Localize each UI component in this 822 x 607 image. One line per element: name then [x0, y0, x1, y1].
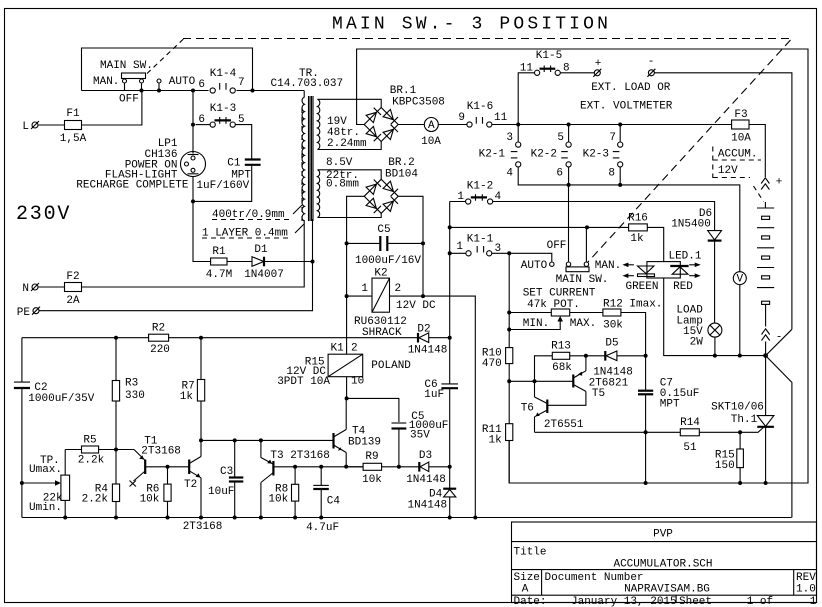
svg-text:9: 9: [458, 112, 465, 124]
svg-text:7: 7: [238, 77, 245, 89]
neon lamp LP1: [76, 91, 205, 202]
svg-text:10: 10: [351, 376, 364, 388]
trimmer TP 22k: [22, 450, 70, 518]
svg-text:1N4148: 1N4148: [407, 500, 447, 512]
wire top bus y=90.5: [82, 90, 209, 92]
svg-text:1: 1: [810, 596, 817, 607]
svg-text:230V: 230V: [16, 203, 71, 226]
svg-text:K2: K2: [374, 268, 387, 280]
svg-text:K2-3: K2-3: [583, 149, 609, 161]
svg-text:10uF: 10uF: [208, 486, 234, 498]
svg-text:1,5A: 1,5A: [60, 133, 87, 145]
svg-text:BR.2: BR.2: [388, 157, 414, 169]
transformer secondary 2 (8.5V): [317, 170, 319, 218]
relay contact K1-2 (closed): [457, 181, 501, 205]
svg-text:0.8mm: 0.8mm: [326, 179, 359, 191]
MAIN SW. selector box: [82, 48, 253, 91]
transistor T6 2T6551: [521, 381, 584, 432]
diode D2: [408, 324, 448, 357]
svg-text:R16: R16: [628, 213, 648, 225]
svg-text:1uF/160V: 1uF/160V: [196, 180, 249, 192]
fuse F2: [38, 271, 82, 307]
svg-text:35V: 35V: [410, 430, 430, 442]
svg-text:Date:: Date:: [514, 596, 547, 607]
svg-text:3: 3: [506, 132, 513, 144]
wire R2 to D2: [169, 337, 418, 339]
mains L terminal: [22, 121, 39, 133]
svg-text:T6: T6: [521, 403, 534, 415]
main switch AUTO contact: [157, 79, 161, 83]
svg-text:220: 220: [150, 344, 170, 356]
main switch MAN contact bar: [122, 73, 146, 79]
svg-text:ACCUM.: ACCUM.: [718, 149, 758, 161]
battery cells: [757, 208, 774, 327]
wire T2 collector rail to T4 base: [201, 439, 334, 441]
junction dot lamp bottom: [191, 199, 195, 203]
ext + terminal: [593, 58, 601, 77]
fuse F3: [731, 109, 751, 145]
svg-text:OFF: OFF: [119, 94, 139, 106]
wire K1-2 left to column: [450, 201, 466, 203]
title block: [512, 522, 817, 607]
svg-text:6: 6: [556, 168, 563, 180]
svg-text:1000uF/35V: 1000uF/35V: [28, 393, 94, 405]
svg-text:SKT10/06: SKT10/06: [711, 402, 764, 414]
svg-text:GREEN: GREEN: [625, 281, 658, 293]
wire MAN contact up to R16 wire: [585, 227, 587, 261]
svg-text:7: 7: [609, 132, 616, 144]
transformer adjustment dashed line: [301, 108, 303, 222]
wire LED bottom to battery junction: [664, 278, 766, 356]
capacitor C3 10uF: [208, 440, 243, 517]
svg-text:-: -: [776, 332, 783, 344]
left column K net (K1-2/K1-1/D2/C6/D4): [449, 202, 451, 384]
wire T5 base rail: [509, 380, 573, 382]
svg-text:10A: 10A: [421, 136, 441, 148]
wire K1-5 to + terminal: [560, 72, 594, 74]
svg-text:2.24mm: 2.24mm: [327, 138, 367, 150]
relay contact K1-3 (closed): [198, 103, 244, 127]
svg-text:5: 5: [557, 132, 564, 144]
transistor T2 2T3168: [183, 440, 223, 533]
junction dot D1/PE: [311, 260, 315, 264]
wire K1-1 left: [450, 252, 466, 254]
svg-text:2A: 2A: [66, 295, 80, 307]
dot K1-3 tap on lamp column: [191, 123, 195, 127]
relay contact K2-2: [531, 125, 572, 180]
svg-text:2T6551: 2T6551: [544, 419, 584, 431]
svg-text:D5: D5: [605, 338, 618, 350]
svg-text:Umax.: Umax.: [29, 464, 62, 476]
svg-text:1N4148: 1N4148: [408, 345, 448, 357]
big loop wire BR.1 to bottom right: [357, 49, 808, 483]
resistor R8: [268, 467, 298, 518]
transformer secondary 1 (19V): [317, 99, 319, 149]
svg-text:1uF: 1uF: [424, 389, 444, 401]
svg-text:150: 150: [715, 460, 735, 472]
svg-text:C1: C1: [227, 158, 241, 170]
svg-text:F3: F3: [734, 109, 747, 121]
svg-text:SET CURRENT: SET CURRENT: [523, 288, 596, 300]
resistor R10 470: [482, 348, 513, 424]
relay contact K1-5 (closed): [520, 50, 570, 75]
junction dots on top bus: [140, 89, 144, 93]
wire ext - terminal down right side: [654, 73, 792, 330]
svg-text:LED.1: LED.1: [668, 251, 701, 263]
svg-text:D1: D1: [254, 244, 268, 256]
svg-text:T3 2T3168: T3 2T3168: [270, 450, 329, 462]
svg-text:4.7M: 4.7M: [206, 269, 232, 281]
thyristor Th.1 SKT10/06: [711, 356, 774, 483]
svg-text:D3: D3: [419, 450, 432, 462]
thyristor gate wire: [740, 428, 763, 433]
transistor T5 2T6821: [548, 356, 629, 406]
mechanical linkage dashed diagonal to main switch: [147, 39, 184, 74]
svg-text:D2: D2: [417, 324, 430, 336]
resistor R11 1k: [482, 424, 513, 483]
svg-text:T2: T2: [184, 479, 197, 491]
svg-text:Title: Title: [514, 547, 547, 559]
wire F1 to main switch: [82, 91, 142, 126]
bottom ground rail: [22, 517, 792, 519]
svg-text:10k: 10k: [362, 474, 382, 486]
svg-text:Umin.: Umin.: [29, 502, 62, 514]
svg-text:+: +: [595, 58, 602, 70]
transformer core: [309, 96, 314, 221]
svg-text:R9: R9: [365, 451, 378, 463]
top rail of regulator (R2 rail): [22, 337, 149, 339]
mains N terminal: [22, 283, 39, 295]
svg-text:C5: C5: [377, 224, 390, 236]
mechanical linkage dashed rail: [183, 38, 791, 40]
wire R1 to D1: [227, 261, 252, 263]
svg-text:K1-3: K1-3: [210, 103, 236, 115]
capacitor C6 1uF: [424, 379, 458, 488]
wire main switch contacts to bus: [124, 83, 126, 90]
wire T3 base rail: [274, 466, 363, 468]
svg-text:BD139: BD139: [348, 437, 381, 449]
svg-text:2W: 2W: [690, 337, 704, 349]
svg-text:-: -: [648, 56, 655, 68]
transformer labels: [271, 68, 368, 191]
svg-text:BD104: BD104: [385, 169, 418, 181]
svg-text:330: 330: [125, 390, 145, 402]
svg-text:1: 1: [456, 241, 463, 253]
svg-text:Th.1: Th.1: [731, 414, 758, 426]
wire secondary1 to BR.1: [318, 99, 382, 107]
wire R16 feed: [450, 226, 629, 228]
lower MAIN SW selector: [521, 240, 621, 286]
svg-text:PVP: PVP: [653, 529, 673, 541]
svg-text:K1-6: K1-6: [467, 101, 493, 113]
wire R12 to D5 node: [621, 313, 646, 356]
resistor R6: [140, 467, 172, 518]
svg-text:1N4007: 1N4007: [244, 269, 284, 281]
bridge rectifier BR.2 BD104: [364, 157, 418, 213]
wire K2 contacts common rail to voltmeter: [518, 167, 740, 272]
wire K1 pin10 node to C5b: [347, 398, 399, 422]
svg-text:1: 1: [361, 283, 368, 295]
wire D1 to PE column: [264, 261, 313, 263]
primary winding spec 1 LAYER 0.4mm: [202, 224, 304, 240]
wire main DC bus y=124.5: [492, 124, 732, 126]
diode D1: [244, 244, 284, 281]
resistor R1: [206, 246, 232, 281]
svg-text:MAN.: MAN.: [93, 76, 119, 88]
wire lamp column down to R1: [193, 201, 211, 261]
wire K2 pin2 to T4 collector column: [390, 296, 476, 517]
svg-text:68k: 68k: [552, 362, 572, 374]
svg-text:AUTO: AUTO: [169, 76, 196, 88]
mains PE terminal: [17, 307, 40, 319]
resistor R13 68k: [535, 341, 586, 382]
wire K1-2 right to D6: [493, 202, 715, 231]
svg-text:R3: R3: [125, 378, 138, 390]
svg-text:RED: RED: [673, 281, 693, 293]
resistor R14 51: [680, 417, 740, 454]
svg-text:R14: R14: [680, 417, 700, 429]
resistor R7: [180, 338, 205, 441]
svg-text:V: V: [736, 274, 743, 286]
svg-text:N: N: [22, 283, 29, 295]
resistor R9: [346, 451, 399, 486]
capacitor C5 1000uF/16V: [347, 224, 423, 267]
svg-text:1.0: 1.0: [796, 584, 816, 596]
svg-text:A: A: [522, 584, 529, 596]
svg-text:12V: 12V: [718, 165, 738, 177]
load lamp 15V 2W: [676, 305, 722, 356]
svg-text:R13: R13: [551, 341, 571, 353]
svg-text:2T3168: 2T3168: [141, 446, 181, 458]
svg-text:F2: F2: [66, 271, 79, 283]
svg-text:C4: C4: [327, 496, 341, 508]
svg-text:10A: 10A: [731, 133, 751, 145]
svg-text:KBPC3508: KBPC3508: [392, 97, 445, 109]
svg-text:Size: Size: [514, 572, 540, 584]
svg-text:MIN.: MIN.: [523, 318, 549, 330]
wire K1-5 to bus: [518, 73, 534, 125]
capacitor C7 0.15uF: [638, 356, 699, 483]
svg-text:T5: T5: [592, 388, 605, 400]
wire T1 base to T2 base: [146, 466, 189, 468]
svg-text:8: 8: [608, 168, 615, 180]
primary winding spec 400tr/0.9mm: [212, 205, 302, 221]
svg-text:1k: 1k: [630, 233, 644, 245]
svg-text:51: 51: [683, 442, 697, 454]
diode D4: [407, 489, 456, 518]
wire K1-3 right to C1: [235, 125, 251, 159]
bi-colour LED.1: [622, 251, 701, 294]
capacitor C4 4.7uF: [306, 467, 340, 534]
ext - terminal: [647, 56, 655, 77]
resistor R4: [82, 450, 120, 518]
svg-text:K2-1: K2-1: [479, 149, 506, 161]
potentiometer 47k: [509, 309, 603, 330]
relay coil K2: [354, 268, 436, 340]
svg-text:Document Number: Document Number: [545, 572, 644, 584]
svg-text:F1: F1: [66, 108, 80, 120]
diode D6 1N5400: [671, 208, 721, 323]
relay contact K1-6: [458, 101, 507, 127]
svg-text:C14.703.037: C14.703.037: [271, 78, 344, 90]
svg-text:4: 4: [506, 168, 513, 180]
svg-text:12V DC: 12V DC: [396, 300, 436, 312]
svg-text:1N4148: 1N4148: [406, 474, 446, 486]
wire K1-3 left to lamp column: [196, 124, 211, 126]
fuse F1: [38, 108, 87, 145]
battery minus arrow: [762, 329, 783, 356]
transistor T1 2T3168: [116, 436, 181, 487]
svg-text:RECHARGE COMPLETE: RECHARGE COMPLETE: [76, 180, 189, 192]
svg-text:R2: R2: [152, 323, 165, 335]
capacitor C2 1000uF/35V: [14, 338, 95, 518]
main switch MAN right contact: [140, 79, 144, 83]
relay contact K2-1: [479, 125, 521, 180]
svg-text:MAIN SW.: MAIN SW.: [556, 274, 609, 286]
resistor R12 30k: [603, 299, 663, 332]
resistor R15 150: [715, 432, 744, 483]
svg-text:8.5V: 8.5V: [326, 157, 353, 169]
svg-text:470: 470: [482, 358, 502, 370]
svg-text:MPT: MPT: [660, 399, 680, 411]
svg-text:30k: 30k: [603, 320, 623, 332]
svg-text:POLAND: POLAND: [371, 360, 411, 372]
svg-text:2.2k: 2.2k: [78, 455, 105, 467]
svg-text:Sheet: Sheet: [679, 596, 712, 607]
relay contact K1-1: [456, 234, 501, 256]
svg-text:K2-2: K2-2: [531, 149, 557, 161]
svg-text:OFF: OFF: [547, 240, 567, 252]
wire PE to transformer core: [39, 219, 313, 311]
svg-text:K1: K1: [330, 343, 344, 355]
bridge rectifier BR.1 KBPC3508: [364, 85, 445, 142]
svg-text:PE: PE: [17, 307, 31, 319]
svg-text:2: 2: [395, 283, 402, 295]
svg-text:R5: R5: [83, 435, 96, 447]
mechanical linkage dashed diagonal to lower switch: [588, 40, 791, 263]
svg-text:2.2k: 2.2k: [82, 494, 109, 506]
K1-1 pot column: [508, 253, 510, 347]
svg-text:10k: 10k: [140, 494, 160, 506]
wire battery minus bowtie: [766, 329, 792, 517]
transistor T3 2T3168: [261, 440, 330, 517]
wire BR.2 right to C5 right column: [398, 196, 423, 296]
svg-text:1k: 1k: [488, 435, 502, 447]
svg-text:11: 11: [494, 112, 508, 124]
battery plus arrow: [754, 177, 783, 209]
wire D2 to K column: [429, 337, 450, 339]
ACCUM. 12V dashed box: [713, 147, 761, 179]
svg-text:10k: 10k: [268, 493, 288, 505]
transformer TR primary winding: [302, 97, 304, 221]
svg-text:C3: C3: [220, 466, 233, 478]
svg-text:L: L: [22, 121, 29, 133]
resistor R2: [149, 323, 170, 357]
wire K1-1 right to AUTO contact: [492, 253, 552, 261]
svg-text:A: A: [428, 120, 435, 132]
svg-text:1000uF/16V: 1000uF/16V: [355, 255, 421, 267]
wire secondary2 to BR.2: [318, 170, 382, 180]
resistor R16: [628, 213, 648, 246]
svg-text:AUTO: AUTO: [521, 260, 548, 272]
svg-text:3PDT 10A: 3PDT 10A: [277, 376, 330, 388]
wire K1 pin10 to node: [346, 377, 348, 399]
capacitor C1: [196, 158, 260, 193]
svg-text:K1-5: K1-5: [536, 50, 562, 62]
svg-text:NAPRAVISAM.BG: NAPRAVISAM.BG: [624, 584, 710, 596]
voltmeter V: [733, 272, 746, 356]
svg-text:K1-4: K1-4: [210, 68, 237, 80]
diode D3: [399, 450, 450, 486]
wire F3 to battery +: [749, 125, 765, 178]
wire K2 pin1: [347, 295, 372, 297]
relay coil K1: [277, 343, 411, 389]
svg-text:2: 2: [351, 343, 358, 355]
wire C1 bottom to lamp bottom node: [193, 165, 252, 202]
svg-text:EXT. LOAD OR: EXT. LOAD OR: [591, 82, 671, 94]
resistor R3: [112, 338, 145, 450]
svg-text:K1-2: K1-2: [467, 181, 493, 193]
svg-text:6: 6: [198, 79, 205, 91]
diode D5: [586, 338, 646, 379]
capacitor C5 1000uF/35V: [392, 411, 449, 467]
wire F2 to transformer primary: [82, 220, 305, 287]
svg-text:MAIN SW.- 3 POSITION: MAIN SW.- 3 POSITION: [332, 15, 611, 35]
wire T6 emitter to thyristor gate: [535, 431, 681, 433]
wire OFF contact to K2 rail: [568, 185, 570, 262]
relay contact K2-3: [583, 125, 623, 180]
svg-text:K1-1: K1-1: [467, 234, 494, 246]
svg-text:2T3168: 2T3168: [183, 521, 223, 533]
svg-text:MAN.: MAN.: [595, 260, 621, 272]
wire BR.2 left to C5/K2 column: [347, 196, 365, 354]
svg-text:+: +: [776, 177, 783, 189]
svg-text:R12 Imax.: R12 Imax.: [603, 299, 662, 311]
ammeter A 10A: [421, 118, 441, 149]
svg-text:1 of: 1 of: [747, 596, 773, 607]
main switch MAN left contact: [123, 79, 127, 83]
svg-text:MAIN SW.: MAIN SW.: [100, 60, 153, 72]
svg-text:1N5400: 1N5400: [671, 219, 711, 231]
relay contact K1-4: [198, 68, 244, 93]
svg-text:REV: REV: [796, 572, 816, 584]
wire BR.1 + to ammeter: [398, 124, 424, 126]
svg-text:R1: R1: [212, 246, 226, 258]
svg-text:BR.1: BR.1: [390, 85, 417, 97]
svg-text:4.7uF: 4.7uF: [306, 522, 339, 534]
wire R16 to LED: [647, 227, 663, 261]
svg-text:MAX.: MAX.: [570, 318, 596, 330]
svg-text:January 13, 2015: January 13, 2015: [571, 596, 677, 607]
svg-text:ACCUMULATOR.SCH: ACCUMULATOR.SCH: [613, 559, 712, 571]
svg-text:1k: 1k: [180, 391, 194, 403]
svg-text:EXT. VOLTMETER: EXT. VOLTMETER: [580, 101, 673, 113]
wire ammeter to K1-6: [438, 124, 467, 126]
resistor R5: [65, 435, 116, 467]
transistor T4 BD139: [334, 398, 382, 466]
